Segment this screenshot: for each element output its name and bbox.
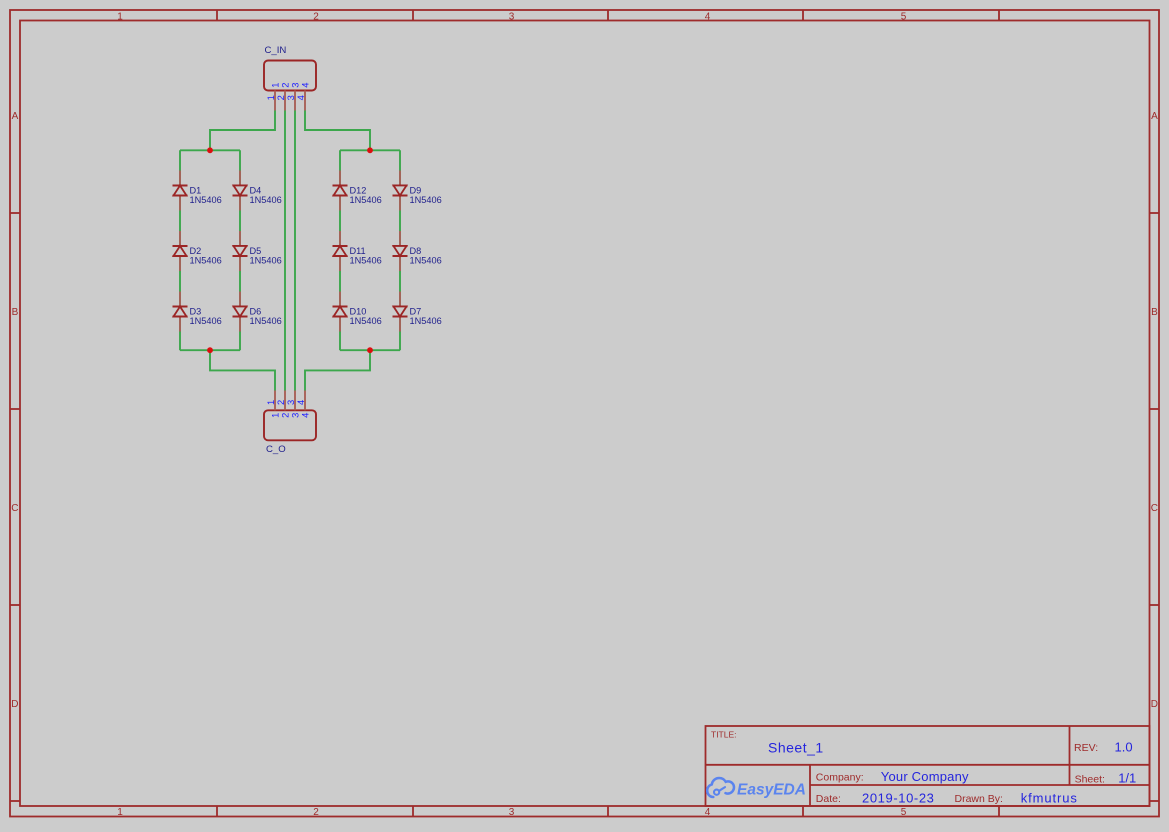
svg-text:Date:: Date:: [816, 793, 841, 805]
svg-text:2: 2: [313, 11, 319, 22]
diode D1: [173, 171, 188, 211]
wire right bridge bottom bar: [340, 349, 400, 351]
wire right bridge top bar: [340, 149, 400, 151]
connector C_O: [264, 391, 316, 441]
svg-text:4: 4: [705, 11, 711, 22]
wire left bridge right column: [239, 150, 241, 350]
title block: [706, 726, 1150, 806]
junction top-right node: [367, 147, 373, 153]
svg-text:A: A: [1151, 111, 1158, 122]
svg-text:D: D: [11, 699, 18, 710]
EasyEDA logo: [707, 778, 806, 799]
svg-text:C: C: [1151, 503, 1158, 514]
wire left bridge bottom node to C_O pin1: [210, 350, 275, 390]
svg-text:4: 4: [299, 413, 310, 418]
wire C_IN pin2 to C_O pin2: [284, 111, 286, 391]
wire right bridge left column: [339, 150, 341, 350]
svg-text:3: 3: [509, 807, 515, 818]
svg-text:3: 3: [509, 11, 515, 22]
diode D8: [393, 231, 408, 271]
svg-text:Drawn By:: Drawn By:: [955, 793, 1003, 805]
svg-text:B: B: [1151, 307, 1158, 318]
svg-text:5: 5: [901, 11, 907, 22]
diode D2: [173, 231, 188, 271]
svg-text:Sheet:: Sheet:: [1075, 773, 1105, 785]
svg-text:2019-10-23: 2019-10-23: [862, 791, 935, 806]
diode D5: [233, 231, 248, 271]
svg-text:4: 4: [295, 95, 306, 100]
diode D9: [393, 171, 408, 211]
connector C_IN: [264, 61, 316, 111]
diode D7: [393, 292, 408, 332]
svg-text:kfmutrus: kfmutrus: [1021, 791, 1078, 806]
junction top-left node: [207, 147, 213, 153]
svg-text:4: 4: [705, 807, 711, 818]
svg-text:4: 4: [295, 400, 306, 405]
svg-text:Sheet_1: Sheet_1: [768, 739, 824, 755]
diode D12: [333, 171, 348, 211]
wire C_IN pin4 to right bridge top node: [305, 111, 370, 151]
svg-text:B: B: [12, 307, 19, 318]
C_IN pin numbers: [265, 83, 310, 101]
svg-text:1: 1: [117, 11, 123, 22]
wire C_IN pin1 to left bridge top node: [210, 111, 275, 151]
diode D10: [333, 292, 348, 332]
svg-text:D: D: [1151, 699, 1158, 710]
svg-text:C_IN: C_IN: [265, 45, 287, 56]
svg-text:1.0: 1.0: [1115, 740, 1133, 755]
svg-text:REV:: REV:: [1074, 742, 1098, 754]
C_O pin numbers: [265, 400, 310, 418]
svg-text:EasyEDA: EasyEDA: [737, 782, 806, 799]
svg-text:C: C: [11, 503, 18, 514]
svg-text:Your Company: Your Company: [881, 769, 969, 784]
diode D4: [233, 171, 248, 211]
svg-text:Company:: Company:: [816, 771, 864, 783]
svg-text:2: 2: [313, 807, 319, 818]
diode D3: [173, 292, 188, 332]
wire C_IN pin3 to C_O pin3: [294, 111, 296, 391]
diode D11: [333, 231, 348, 271]
svg-text:1/1: 1/1: [1118, 771, 1136, 786]
junction bottom-left node: [207, 347, 213, 353]
title block text: [711, 729, 1136, 805]
svg-text:TITLE:: TITLE:: [711, 729, 737, 739]
wire right bridge right column: [399, 150, 401, 350]
wire left bridge top bar: [180, 149, 240, 151]
junction bottom-right node: [367, 347, 373, 353]
wire left bridge left column: [179, 150, 181, 350]
svg-text:1: 1: [117, 807, 123, 818]
diode D6: [233, 292, 248, 332]
svg-text:C_O: C_O: [266, 444, 286, 455]
svg-text:4: 4: [299, 83, 310, 88]
svg-text:A: A: [12, 111, 19, 122]
wire left bridge bottom bar: [180, 349, 240, 351]
wire right bridge bottom node to C_O pin4: [305, 350, 370, 390]
svg-text:5: 5: [901, 807, 907, 818]
